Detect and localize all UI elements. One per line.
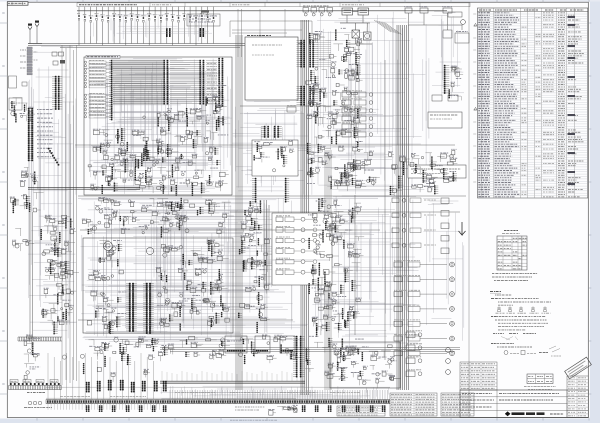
notes paragraph 2 [491,316,498,318]
sensor rows group B [84,94,86,96]
lower feed bus [28,44,303,48]
relay grid feed bus [264,200,269,288]
notes heading [490,291,501,293]
relay rows mid-right [392,198,399,203]
parts table dark stamps [568,16,576,18]
parts table row text [478,12,490,14]
horn SA2 [35,21,39,23]
DIP strip U11 [146,283,148,334]
revision triangles [474,23,477,110]
wire mesh main block [85,58,232,195]
center top link line [230,21,312,37]
fuse lower wires [79,21,214,46]
long wire below controller [240,105,348,107]
harness bus 2 [301,20,309,395]
option table caption [492,273,538,275]
connector pin column right of block B [301,86,302,105]
drop wires center to feeder [162,371,297,381]
monitor gauge G2 [104,242,113,251]
relay bars K2 [200,28,202,37]
comb cell marks [47,401,389,403]
wire mesh upper center [232,102,312,196]
center field clusters row 3 [89,276,94,280]
connector stack F [61,308,63,310]
battery B2 [358,8,369,15]
center field clusters row 1 [165,218,168,221]
upper mid clusters [358,40,362,43]
fuse box label [187,14,220,26]
center wire field 1 [113,61,163,104]
title block dividers [460,390,588,418]
pin field wires A [317,41,331,67]
horn SA1 [28,24,32,26]
connector stack E [53,227,57,231]
starter wires [348,23,372,44]
relay grid block [272,213,332,285]
solenoid valve rows A [342,92,351,97]
right page margin shade [590,0,600,423]
connector pin column right of block A [301,40,302,67]
pin cluster under sub block [255,178,256,202]
wire stubs right [206,61,217,104]
relay bars K1 [166,28,168,37]
wire mesh right-of-center lower [312,196,418,345]
long label box right [408,165,466,178]
main block lower components [197,130,198,135]
DIP strip U10 [129,283,131,332]
bottom page margin shade [0,419,600,423]
long link wires [75,60,466,360]
top-left drawing number box [7,2,28,5]
bottom mini table C [441,393,474,416]
small connector boxes [52,52,57,56]
sensor rows group A [84,61,86,63]
connector CN-A vertical strip [55,76,56,110]
wire mesh right-of-center upper [313,12,429,196]
connector box below controller [287,107,296,112]
controller lower small pin field [264,126,265,138]
schematic/table divider line [468,2,470,417]
valve block cluster [352,178,353,185]
main power bus [77,10,447,12]
harness bus 1 [236,35,242,390]
label stacks below comb right [302,406,303,412]
mechatro controller block [245,37,298,100]
parts table rows [478,14,588,198]
engine controller block outline [83,238,233,333]
sub controller block [252,140,298,176]
notes symbol row 1 [497,307,501,310]
cab harness block outline [84,57,232,195]
table row index dashes [473,14,476,182]
fuse boxes above TB1 [10,380,18,383]
bottom mini table B [390,393,437,416]
comb lower drops [48,404,160,410]
left boxes lower [9,76,17,88]
connector CN-22 pin pair [200,60,201,104]
horn wires [28,27,42,44]
IC block U22 [280,336,295,353]
pump control box [330,342,400,388]
ladder column [441,198,449,204]
motor M2 [364,32,372,40]
IC block U20 [225,336,247,353]
edge tick marks top [37,0,589,2]
main block right components [223,117,224,126]
connector stack H [30,368,37,370]
parts table column lines [482,8,575,198]
relay box right [428,112,462,128]
wire mesh top fuse area [79,13,212,42]
dark bottom feeder pair [160,381,305,383]
KOBELCO logo [505,412,510,416]
notes sub symbols [493,333,504,335]
lower horizontal bus [160,348,460,352]
edge tick marks left [0,23,7,394]
option table header text [504,230,518,232]
connector stack E2 [53,294,58,296]
top title strip [77,3,470,7]
title block right grid [567,376,588,418]
fusible link column [27,47,32,49]
bottom section top line [46,387,390,398]
notes paragraph 1 [491,298,497,300]
notes paragraph 3 [491,343,498,345]
switch cluster D [26,242,29,245]
pilot lamps [28,401,32,405]
fuse row wires [79,7,214,17]
below comb text clusters [235,406,264,408]
starter M1 [352,30,360,38]
main block mid components [187,116,188,127]
title block field text [462,393,492,395]
label stacks below comb [86,406,87,412]
terminal strip TB1 [9,386,62,390]
harness bus 3 [325,150,331,390]
pin labels right [207,63,217,65]
wire mesh left column [28,45,77,338]
left margin grid letters [2,13,4,384]
alternator G1 [461,20,466,25]
wire mesh bottom strip [161,386,389,399]
left small comb [18,337,62,341]
diagonal harness bundle [374,20,401,34]
approval table [460,362,497,390]
switch cluster SW row [20,206,29,209]
connector CN-20 left pin column [111,60,112,120]
comb upper drops [170,390,388,400]
title block outline [460,390,588,418]
monitor gauge G3 [146,247,153,254]
parts table header [478,11,588,13]
battery wires [340,12,370,24]
connector stack C [25,173,29,177]
pressure sensor column [296,336,297,377]
TB1 label [27,392,45,394]
top-right wires [409,13,463,30]
valve rows lower right [406,332,415,338]
left harness verticals [62,45,77,385]
parts table outline [478,8,588,198]
left lower bus [30,212,33,340]
proportional valve rows [394,262,402,267]
comb labels above [175,392,215,394]
drop wires left of comb [48,353,153,399]
bottom margin page note [230,419,278,421]
double circles right edge [446,348,451,353]
edge tick marks right [588,23,591,394]
top page margin shade [0,0,600,2]
connector CN-B pin column [28,108,29,161]
lamp cluster LH [29,118,32,121]
mid field clusters [259,276,260,287]
relay diode rows [400,162,409,166]
serial table caption [524,386,556,388]
main terminal comb [46,400,390,404]
center wire field 2 [170,61,199,104]
flow arrow symbol [459,222,466,235]
relay boxes top-right [405,8,412,13]
connector column right [444,65,445,94]
connector stack G [31,353,40,355]
center field clusters row 4 [127,356,128,365]
battery B1 [342,8,353,15]
harness bus 4 (main right) [397,25,408,390]
dark feeder pair [28,187,140,189]
wire mesh center band [81,197,308,344]
connector CN-23 pin pair [219,58,220,107]
inspection stamp rotated [565,357,592,379]
upper center sparse wires [232,9,302,57]
relay cluster top-center [303,8,309,13]
staircase connector [48,148,59,165]
option grid table [497,236,527,270]
IC block U21 [255,336,270,353]
label stacks above comb [86,382,87,392]
connector CN-21 mid pin pair [164,60,165,104]
edge tick marks bottom [37,418,589,421]
serial small table [527,374,553,384]
notes symbol row 2 [504,351,508,355]
fuse symbols [78,15,79,17]
center field clusters row 2 [109,260,120,267]
bottom mini table A [337,406,385,416]
